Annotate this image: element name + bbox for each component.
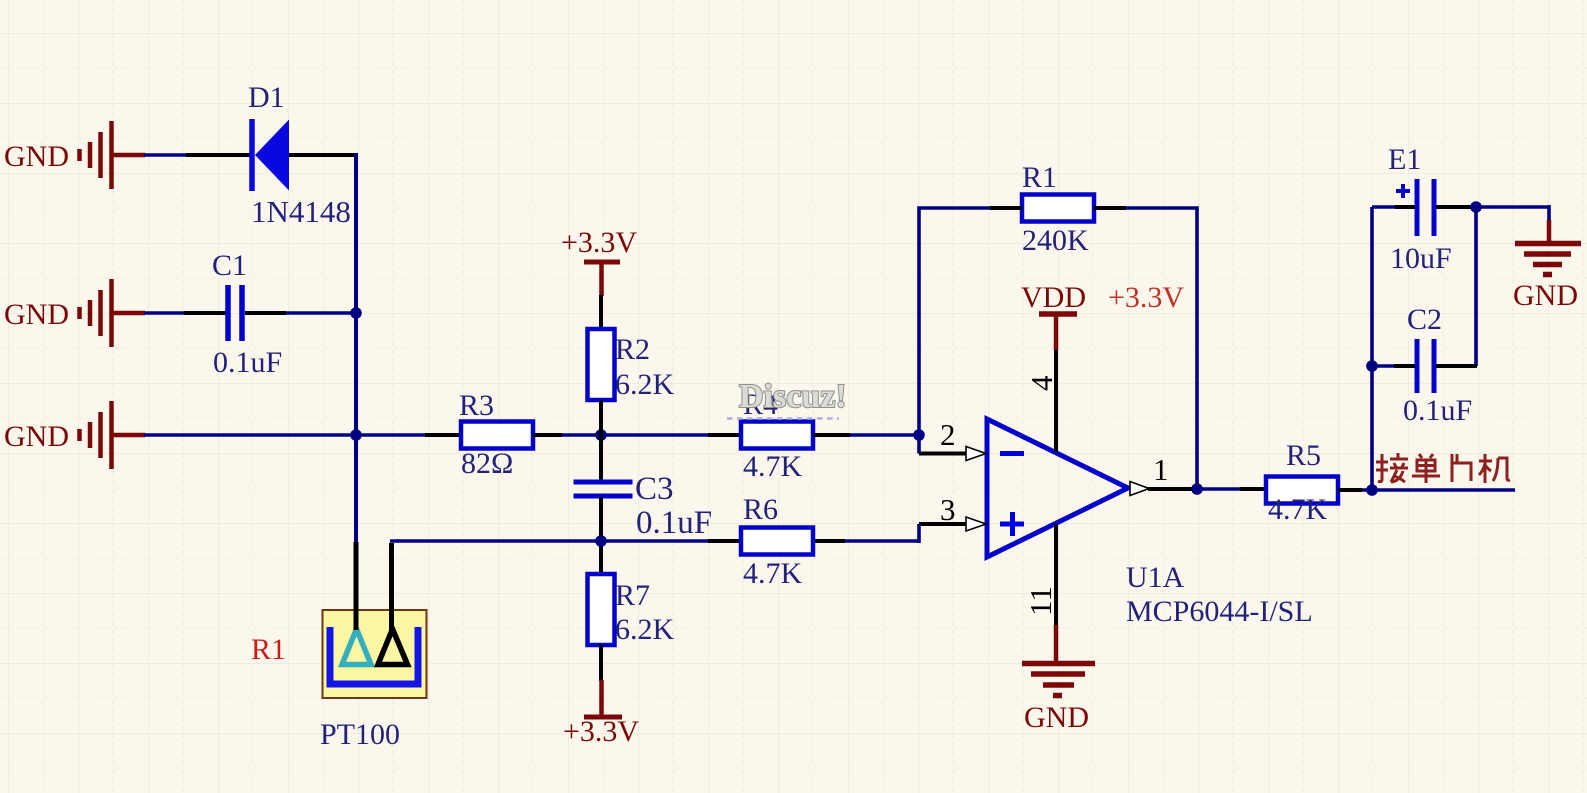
wire PT100 to row4: [390, 539, 919, 543]
svg-text:+3.3V: +3.3V: [1108, 281, 1184, 314]
power port +3.3V top: [584, 262, 620, 296]
node junction D-row out: [1366, 484, 1378, 496]
power port VDD: [1039, 314, 1077, 350]
svg-text:3: 3: [940, 492, 956, 527]
wire output pin1: [1148, 487, 1197, 491]
wire pin2 stub: [919, 452, 966, 456]
svg-text:R1: R1: [1022, 161, 1057, 194]
svg-text:+3.3V: +3.3V: [561, 226, 637, 259]
svg-text:6.2K: 6.2K: [615, 368, 675, 401]
svg-text:4.7K: 4.7K: [743, 557, 803, 590]
op-amp plus sign: [1000, 512, 1024, 536]
resistor R3: [461, 422, 533, 449]
svg-text:GND: GND: [4, 140, 69, 173]
svg-text:GND: GND: [4, 298, 69, 331]
wire pin3 stub: [919, 522, 966, 526]
svg-text:4.7K: 4.7K: [1268, 493, 1328, 526]
svg-text:GND: GND: [1024, 701, 1089, 734]
svg-text:4.7K: 4.7K: [743, 450, 803, 483]
power port GND row1: [80, 121, 146, 189]
ground GND top right: [1515, 220, 1581, 275]
wire R3 to node B: [533, 433, 741, 437]
wire C1 to net A: [245, 311, 356, 315]
capacitor E1 plus mark: [1396, 184, 1410, 198]
svg-text:4: 4: [1024, 375, 1059, 391]
svg-text:C1: C1: [212, 249, 247, 282]
wire E1 row: [1372, 205, 1549, 222]
resistor R5: [1266, 477, 1338, 504]
svg-text:+3.3V: +3.3V: [563, 715, 639, 748]
capacitor E1: [1417, 179, 1434, 236]
svg-text:E1: E1: [1388, 143, 1421, 176]
resistor R1: [1022, 195, 1094, 222]
node junction C-row3: [913, 429, 925, 441]
wire GND3 to R3: [144, 433, 461, 437]
svg-text:240K: 240K: [1022, 224, 1089, 257]
pin arrow 3: [966, 517, 986, 531]
wire C3 to R7: [599, 497, 603, 574]
sensor PT100 cyan triangle: [342, 629, 371, 665]
svg-text:0.1uF: 0.1uF: [1403, 394, 1472, 427]
svg-text:U1A: U1A: [1126, 561, 1185, 594]
svg-text:0.1uF: 0.1uF: [636, 505, 712, 541]
sensor PT100 bracket: [330, 627, 418, 684]
svg-text:MCP6044-I/SL: MCP6044-I/SL: [1126, 595, 1313, 628]
svg-text:Discuz!: Discuz!: [739, 378, 847, 415]
svg-text:GND: GND: [4, 420, 69, 453]
sensor PT100 black triangle: [378, 629, 408, 665]
ground GND below op-amp: [1022, 625, 1095, 696]
power port GND row3: [80, 401, 146, 469]
wire R1 right loop: [1094, 208, 1197, 489]
resistor R6: [741, 528, 813, 555]
wire R4 to node C: [813, 433, 919, 437]
wire C2 row: [1372, 364, 1477, 368]
wire pin2 drop: [917, 435, 921, 454]
wire output to R5: [1197, 487, 1266, 491]
wire pin3 riser: [917, 524, 921, 543]
svg-text:11: 11: [1023, 586, 1058, 616]
svg-text:C2: C2: [1407, 303, 1442, 336]
svg-text:R6: R6: [743, 493, 778, 526]
node junction A-C1: [350, 307, 362, 319]
node junction A-row3: [350, 429, 362, 441]
wire net D vertical: [1370, 207, 1374, 490]
wire R5 to output net: [1338, 488, 1515, 492]
resistor R2: [588, 329, 615, 400]
node junction E1 right: [1470, 201, 1482, 213]
wire GND2 to C1: [144, 311, 226, 315]
node junction D-C2: [1366, 360, 1378, 372]
power port +3.3V bottom: [584, 680, 622, 717]
wire R7 to +3.3V bottom: [599, 645, 603, 681]
svg-text:D1: D1: [248, 81, 285, 114]
resistor R7: [588, 574, 615, 645]
capacitor C3: [574, 482, 633, 496]
wire R2 to C3: [599, 400, 603, 482]
svg-text:1: 1: [1153, 452, 1169, 487]
wire vertical net A: [354, 153, 358, 543]
svg-text:R5: R5: [1286, 439, 1321, 472]
node junction output: [1191, 483, 1203, 495]
pin arrow 1 output: [1130, 482, 1149, 496]
sensor PT100 body: [323, 610, 427, 698]
svg-text:R1: R1: [251, 633, 286, 666]
svg-text:0.1uF: 0.1uF: [213, 346, 282, 379]
watermark dotted underline: [727, 417, 839, 419]
wire R1 left loop: [919, 208, 1022, 435]
wire GND1 to D1: [144, 153, 250, 157]
wire net E vertical: [1474, 207, 1478, 366]
diode D1: [252, 119, 289, 191]
node junction B-row3: [595, 429, 607, 441]
label 接单片机: [1376, 453, 1510, 483]
svg-text:C3: C3: [635, 471, 674, 507]
svg-text:PT100: PT100: [320, 718, 400, 751]
resistor R4: [741, 422, 813, 449]
power port GND row2: [80, 279, 146, 347]
op-amp minus sign: [1000, 451, 1024, 456]
pin 4 wire: [1054, 348, 1058, 452]
svg-text:1N4148: 1N4148: [251, 194, 351, 229]
svg-text:R3: R3: [459, 389, 494, 422]
op-amp U1A: [987, 419, 1128, 557]
pin arrow 2: [966, 447, 986, 461]
capacitor C1: [228, 285, 242, 341]
wire +3.3V to R2: [599, 295, 603, 330]
pin 11 wire: [1054, 524, 1058, 626]
svg-text:6.2K: 6.2K: [615, 613, 675, 646]
pin PT100 left: [354, 542, 359, 630]
svg-text:VDD: VDD: [1021, 281, 1086, 314]
svg-text:GND: GND: [1513, 279, 1578, 312]
pin PT100 right: [389, 543, 394, 630]
capacitor C2: [1417, 339, 1434, 393]
wire D1 to corner: [289, 153, 358, 157]
svg-text:82Ω: 82Ω: [461, 447, 513, 480]
svg-text:10uF: 10uF: [1390, 242, 1452, 275]
svg-text:2: 2: [940, 417, 956, 452]
wire row4 pin stubs R6: [708, 539, 845, 543]
node junction B-row4: [595, 535, 607, 547]
svg-text:R7: R7: [615, 579, 650, 612]
svg-text:R2: R2: [615, 333, 650, 366]
